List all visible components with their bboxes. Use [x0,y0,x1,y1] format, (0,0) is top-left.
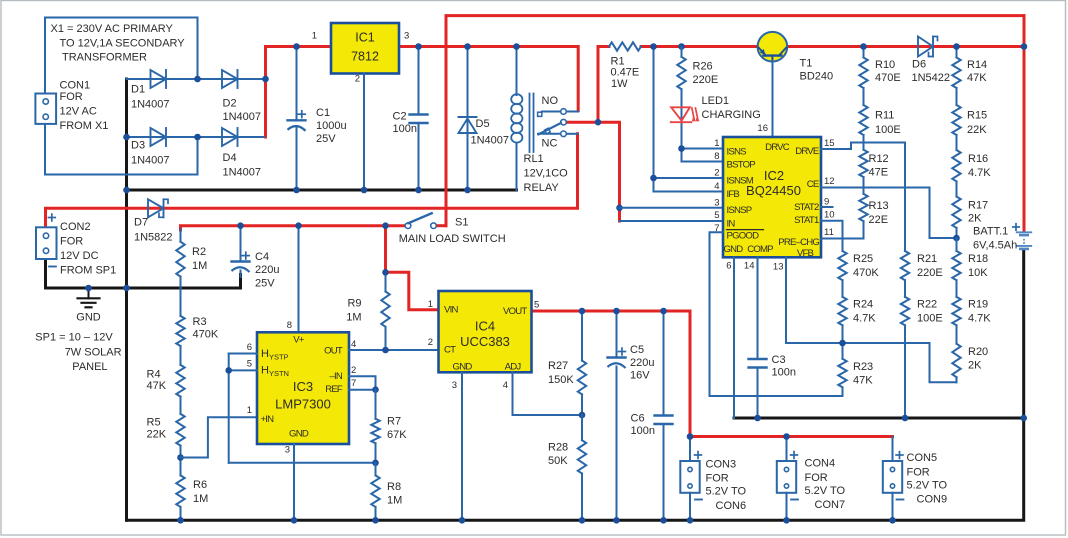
svg-text:T1: T1 [800,58,813,70]
wire IC3 HYSTP/HYSTN to R7-R8 node [225,354,375,463]
resistor R23 47K [838,359,873,388]
svg-text:1N5822: 1N5822 [134,232,173,244]
svg-text:CON5: CON5 [907,452,938,464]
svg-text:D2: D2 [223,98,237,110]
svg-text:IC2: IC2 [764,168,784,183]
diode D6 1N5422 [912,37,951,85]
svg-text:R19: R19 [968,298,988,310]
svg-text:12V DC: 12V DC [60,250,99,262]
svg-text:CON9: CON9 [917,494,948,506]
svg-text:FOR: FOR [60,91,83,103]
svg-text:1: 1 [312,31,317,42]
diode D2 1N4007 [222,70,261,123]
svg-text:470E: 470E [875,72,901,84]
svg-text:COMP: COMP [747,244,773,255]
svg-text:IN: IN [727,218,736,229]
junction R9 bottom OUT node [382,347,389,354]
svg-text:CON7: CON7 [815,499,846,511]
svg-text:11: 11 [824,227,834,238]
wire main load line R2 to S1 [181,226,447,230]
svg-text:R13: R13 [869,200,889,212]
svg-text:15: 15 [824,138,835,149]
svg-text:14: 14 [744,261,755,272]
svg-text:50K: 50K [548,455,568,467]
svg-text:X1 = 230V AC PRIMARY: X1 = 230V AC PRIMARY [51,23,174,35]
svg-text:1N4007: 1N4007 [471,134,510,146]
svg-text:R28: R28 [548,442,568,454]
svg-text:5.2V TO: 5.2V TO [805,485,846,497]
resistor R25 470K [838,251,879,280]
svg-text:C3: C3 [772,354,786,366]
svg-text:100n: 100n [631,425,655,437]
svg-text:1N4007: 1N4007 [131,98,170,110]
svg-text:220u: 220u [255,264,279,276]
svg-text:2: 2 [714,167,719,178]
svg-text:1N5422: 1N5422 [912,72,951,84]
svg-text:R12: R12 [869,153,889,165]
svg-text:R22: R22 [917,298,937,310]
svg-text:PRE–CHG: PRE–CHG [778,237,819,248]
IC1 7812 regulator [312,23,410,85]
junction battery sense node [953,235,960,242]
wire IC2 PRE-CHG pin 11 to R13 [821,221,864,238]
resistor R12 47E [859,150,888,179]
svg-text:5: 5 [714,210,719,221]
svg-text:8: 8 [287,320,292,331]
svg-text:470K: 470K [193,329,219,341]
junction R5-R6 node [177,454,184,461]
svg-text:3: 3 [285,445,290,456]
svg-text:D3: D3 [131,140,145,152]
resistor R22 100E [901,280,943,418]
resistor R14 47K [952,47,987,89]
charge controller IC2 BQ24450 [714,137,834,273]
capacitor C2 100n [393,47,428,191]
junction R10 rail node [860,43,867,50]
svg-text:R14: R14 [967,59,987,71]
svg-text:1: 1 [714,138,719,149]
switch S1 main load switch [399,213,506,245]
svg-text:22K: 22K [147,428,167,440]
svg-text:1000u: 1000u [316,120,347,132]
wire S1 node to R9 and IC4 VIN [386,226,439,310]
resistor R7 67K [371,390,407,463]
svg-text:C1: C1 [316,107,330,119]
wire CON1 bottom pin to D3-D4 junction [45,124,198,175]
svg-text:6: 6 [247,342,252,353]
resistor R24 4.7K [838,280,876,359]
svg-text:RL1: RL1 [524,153,544,165]
svg-text:13: 13 [773,262,784,273]
svg-text:2K: 2K [968,213,982,225]
svg-text:4: 4 [503,380,508,391]
svg-text:D7: D7 [134,216,148,228]
wire R5 to R6 [180,446,182,476]
svg-text:4: 4 [351,339,356,350]
resistor R6 1M [176,475,208,520]
svg-text:GND: GND [289,428,309,439]
svg-text:220u: 220u [630,357,654,369]
wire bridge upper row [127,78,265,80]
svg-text:DRVC: DRVC [765,142,790,153]
resistor R20 2K [952,344,988,383]
wire ground bus from bridge rectifier (black vertical) [125,79,128,520]
svg-text:FOR: FOR [805,472,828,484]
svg-text:R1: R1 [611,55,625,67]
svg-text:R16: R16 [968,153,988,165]
svg-text:GND: GND [724,244,744,255]
wire ground bus under IC1 area [127,189,517,192]
svg-text:220E: 220E [693,74,719,86]
svg-text:BSTOP: BSTOP [727,159,756,170]
wire R4 to R5 [180,397,182,414]
svg-text:V+: V+ [293,334,305,345]
svg-text:R26: R26 [693,61,713,73]
svg-text:FOR: FOR [706,473,729,485]
wire T1 base to IC2 DRVC pin 16 [757,62,772,138]
svg-text:PANEL: PANEL [72,361,107,373]
svg-text:R17: R17 [968,199,988,211]
junction bridge output [262,76,269,83]
svg-text:CON2: CON2 [60,221,91,233]
connector CON2 [36,214,116,276]
svg-text:R10: R10 [875,59,895,71]
wire IC2 IN pin 5 [620,220,724,222]
svg-text:12V AC: 12V AC [60,105,97,117]
wire IC4 GND pin 3 to bottom bus [461,372,463,520]
svg-text:GND: GND [453,361,473,372]
wire battery positive lead [1023,16,1026,232]
junction R9 top node [382,269,389,276]
wire relay common branch to IC2 ISNSP and IN [598,122,620,221]
wire IC2 STAT2 stub [821,206,833,208]
diode D5 1N4007 [459,47,510,191]
svg-text:22K: 22K [967,124,987,136]
svg-text:47K: 47K [147,380,167,392]
svg-text:R20: R20 [968,346,988,358]
svg-text:MAIN LOAD SWITCH: MAIN LOAD SWITCH [399,233,506,245]
wire IC4 ADJ pin 4 to R27-R28 node [513,372,583,415]
svg-text:2: 2 [428,337,433,348]
solar panel note text [35,331,121,373]
ground symbol [76,288,101,324]
resistor R18 10K [952,238,988,280]
junction output line nodes [687,433,790,440]
junction bridge upper [194,76,201,83]
svg-text:S1: S1 [455,217,468,229]
wire IC3 V+ pin 8 to load line [295,222,302,332]
svg-text:4: 4 [714,181,719,192]
svg-text:R15: R15 [967,110,987,122]
svg-text:67K: 67K [387,429,407,441]
resistor R3 470K [176,316,219,346]
svg-text:16V: 16V [630,370,650,382]
svg-text:R5: R5 [147,417,161,429]
resistor R1 0.47E 1W [609,42,641,90]
svg-text:TO 12V,1A SECONDARY: TO 12V,1A SECONDARY [60,38,186,50]
junction S1 feed node [382,222,389,229]
svg-text:R7: R7 [387,416,401,428]
svg-text:16: 16 [757,123,768,134]
junction black bus cross [123,285,130,292]
svg-text:VIN: VIN [444,305,458,316]
resistor R27 150K [548,311,586,415]
wire CON2 negative to GND and C4 [46,260,241,289]
svg-text:6: 6 [726,261,731,272]
svg-text:IFB: IFB [727,189,740,200]
svg-text:CON6: CON6 [716,500,747,512]
op-amp comparator IC3 LMP7300 [247,320,357,456]
svg-text:ISNSP: ISNSP [727,205,752,216]
svg-text:10K: 10K [968,267,988,279]
svg-text:REF: REF [325,384,343,395]
svg-text:47E: 47E [869,166,889,178]
svg-text:D5: D5 [476,118,490,130]
svg-text:CT: CT [444,345,456,356]
svg-text:7812: 7812 [351,50,379,64]
svg-text:25V: 25V [316,133,336,145]
wire LED1 to IC2 ISNS and BSTOP [678,145,723,161]
svg-text:OUT: OUT [324,345,343,356]
resistor R28 50K [548,415,586,520]
wire R1 to T1 emitter (charge rail) [641,45,758,48]
svg-text:100n: 100n [772,367,796,379]
svg-text:R18: R18 [968,253,988,265]
svg-text:5: 5 [534,300,539,311]
svg-text:22E: 22E [869,214,889,226]
svg-text:25V: 25V [255,277,275,289]
transformer note text [51,23,186,64]
resistor R8 1M [371,463,402,521]
svg-text:5.2V TO: 5.2V TO [907,480,948,492]
wire D7 line from CON2 positive to relay NC contact [46,134,578,228]
svg-text:2K: 2K [968,359,982,371]
svg-text:UCC383: UCC383 [460,334,510,349]
svg-text:2: 2 [351,365,356,376]
connector CON3 [680,437,746,521]
svg-text:–IN: –IN [329,371,342,382]
svg-text:100E: 100E [875,124,901,136]
connector CON5 [883,437,948,521]
svg-text:4.7K: 4.7K [968,167,991,179]
junction charge rail nodes [650,43,685,50]
relay NO contact [538,95,579,116]
svg-text:SP1 = 10 – 12V: SP1 = 10 – 12V [35,331,113,343]
resistor R13 22E [859,177,888,226]
wire IC3 OUT to IC4 CT [349,349,439,351]
svg-text:R21: R21 [917,253,937,265]
resistor R2 1M [176,229,207,277]
relay NC contact and arm [538,123,578,150]
junction R7-R8 node [372,460,379,467]
svg-text:R8: R8 [387,481,401,493]
svg-text:R27: R27 [548,360,568,372]
resistor R5 22K [147,414,185,446]
svg-text:LMP7300: LMP7300 [275,397,331,412]
svg-text:RELAY: RELAY [524,182,560,194]
svg-text:1M: 1M [387,495,402,507]
svg-text:1M: 1M [193,493,208,505]
svg-text:FROM SP1: FROM SP1 [60,264,116,276]
junction ISNSP node [616,205,623,212]
resistor R17 2K [952,197,988,239]
resistor R19 4.7K [952,280,991,344]
wire IC2 GND pin 6 to battery bus [733,257,735,418]
svg-text:TRANSFORMER: TRANSFORMER [62,52,147,64]
svg-text:C5: C5 [630,344,644,356]
svg-text:R23: R23 [853,361,873,373]
wire IC2 PGOOD pin 7 to R23 [710,232,843,396]
junction ground bus nodes [123,187,471,194]
svg-text:D6: D6 [912,59,926,71]
svg-text:C6: C6 [631,412,645,424]
resistor R21 220E [901,251,943,280]
svg-text:BQ24450: BQ24450 [746,183,801,198]
capacitor C4 220u 25V [232,226,280,290]
wire IC2 ISNSP pin 3 [620,207,724,209]
relay pole contact [561,119,567,125]
svg-text:VOUT: VOUT [503,306,527,317]
svg-text:CON1: CON1 [60,80,91,92]
svg-text:4.7K: 4.7K [853,313,876,325]
svg-text:10: 10 [824,209,835,220]
svg-text:R24: R24 [853,298,873,310]
svg-text:3: 3 [452,380,457,391]
relay RL1 coil [511,47,568,195]
transistor T1 BD240 [758,32,834,83]
junction bottom bus nodes [177,517,896,524]
svg-text:5.2V TO: 5.2V TO [706,486,747,498]
svg-text:C4: C4 [255,251,269,263]
svg-text:R9: R9 [347,298,361,310]
junction IC1 rail nodes [293,43,520,50]
capacitor C1 1000u 25V [288,47,347,191]
LED1 charging indicator [671,95,761,122]
svg-text:1N4007: 1N4007 [223,111,262,123]
resistor R11 100E [859,88,900,150]
wire IC2 sense divider feed [654,47,724,192]
svg-text:R25: R25 [853,253,873,265]
svg-text:150K: 150K [548,374,574,386]
connector CON4 [777,437,846,521]
wire R2 to R3 [180,277,182,316]
wire IC3 -IN and REF to R7 [349,376,379,393]
wire bridge output to IC1 pin 1 [266,47,332,138]
wire IC3 GND pin 3 to bottom bus [293,444,295,520]
svg-text:FOR: FOR [60,235,83,247]
svg-text:CE: CE [807,179,819,190]
svg-text:D1: D1 [131,84,145,96]
wire IC2 CE pin 12 to battery sense [821,188,953,239]
resistor R15 22K [952,88,987,150]
resistor R4 47K [147,365,185,397]
svg-text:IC3: IC3 [293,379,313,394]
svg-text:7: 7 [351,378,356,389]
svg-text:STAT1: STAT1 [794,215,819,226]
svg-text:1: 1 [428,299,433,310]
svg-text:470K: 470K [853,267,879,279]
svg-text:100E: 100E [917,313,943,325]
svg-text:1M: 1M [192,260,207,272]
svg-text:1: 1 [247,405,252,416]
diode D4 1N4007 [222,128,261,178]
svg-text:CON4: CON4 [805,458,836,470]
svg-text:2: 2 [355,74,360,85]
svg-text:LED1: LED1 [702,95,730,107]
svg-text:7W SOLAR: 7W SOLAR [65,346,122,358]
battery BATT.1 6V 4.5Ah [973,224,1031,252]
svg-text:VFB: VFB [797,248,814,259]
svg-text:47K: 47K [853,375,873,387]
wire IC4 VOUT 5.2V output line [532,311,691,437]
svg-text:STAT2: STAT2 [794,202,819,213]
svg-text:D4: D4 [223,152,237,164]
wire T1 collector to battery positive rail [787,45,1024,48]
wire IC2 VFB pin 13 network [786,257,957,382]
wire R5-R6 node to IC3 +IN [181,417,258,457]
wire CON1 top pin to D1-D2 junction [45,18,198,94]
connector CON1 [35,80,108,133]
wire S1 output to battery top rail [446,16,1024,226]
svg-text:1M: 1M [346,311,361,323]
svg-text:R11: R11 [875,110,894,122]
svg-text:220E: 220E [917,267,943,279]
svg-text:BD240: BD240 [800,71,834,83]
junction battery bus nodes [754,415,1027,422]
junction C4 top [237,222,244,229]
diode D7 1N5822 [134,199,173,243]
wire battery negative bus [734,417,1024,420]
svg-text:1N4007: 1N4007 [131,155,170,167]
svg-text:1W: 1W [611,78,628,90]
svg-text:ISNS: ISNS [727,147,747,158]
svg-text:DRVE: DRVE [795,146,819,157]
wire IC2 ISNSM pin 2 [650,175,723,182]
svg-text:1N4007: 1N4007 [223,166,262,178]
svg-text:12V,1CO: 12V,1CO [524,168,569,180]
capacitor C6 100n [631,311,673,520]
junction bridge lower [123,134,201,141]
svg-text:9: 9 [824,196,829,207]
svg-text:R4: R4 [147,369,161,381]
capacitor C3 100n [749,257,796,418]
svg-text:IC1: IC1 [355,31,375,45]
svg-text:0.47E: 0.47E [611,67,640,79]
svg-text:ADJ: ADJ [505,361,522,372]
resistor R26 220E [677,47,718,149]
svg-text:+IN: +IN [261,414,275,425]
svg-text:12: 12 [824,176,835,187]
svg-text:3: 3 [714,198,719,209]
svg-text:NO: NO [542,95,559,107]
svg-text:R2: R2 [192,246,206,258]
wire bottom ground bus [127,251,1024,521]
resistor R16 4.7K [952,150,991,197]
svg-text:PGOOD: PGOOD [727,230,760,241]
svg-text:BATT.1: BATT.1 [973,226,1008,238]
svg-text:4.7K: 4.7K [968,313,991,325]
junction battery rail corner [1021,43,1028,50]
junction VOUT line nodes [579,308,667,315]
wire bridge lower row [127,136,265,138]
svg-text:C2: C2 [393,111,407,123]
wire IC1 output rail to relay NO contact [399,47,578,111]
svg-text:CON3: CON3 [706,458,737,470]
junction GND tap [85,285,92,292]
svg-text:GND: GND [76,312,101,324]
wire IC2 STAT1 pin 10 to R25 [821,221,843,251]
wire R3 to R4 [180,346,182,365]
